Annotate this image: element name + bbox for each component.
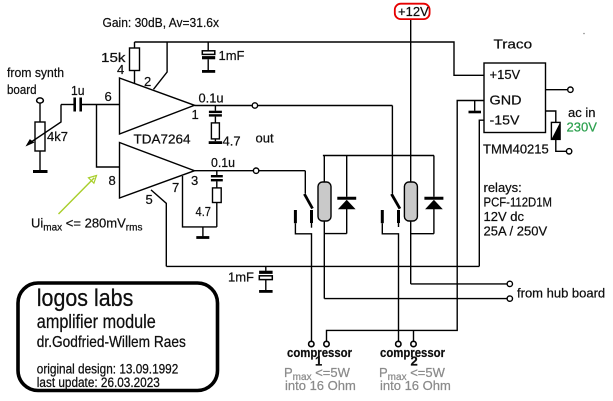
ground near Traco	[474, 101, 476, 111]
node ac terminal 2	[566, 149, 571, 154]
svg-text:4k7: 4k7	[47, 129, 68, 144]
svg-text:relays:: relays:	[484, 180, 522, 195]
wire to pin 8	[97, 105, 120, 168]
svg-text:4: 4	[117, 62, 124, 77]
svg-text:into 16 Ohm: into 16 Ohm	[380, 378, 451, 393]
node ac terminal 1	[568, 87, 573, 92]
svg-text:out: out	[256, 131, 274, 146]
svg-text:Gain: 30dB, Av=31.6x: Gain: 30dB, Av=31.6x	[103, 15, 220, 30]
relay2 contact NO	[381, 210, 384, 223]
svg-text:1mF: 1mF	[228, 270, 254, 285]
resistor R 4.7 top	[211, 123, 219, 139]
diode D2	[433, 156, 435, 197]
wire	[39, 103, 41, 122]
relay1 contact NO	[294, 210, 297, 223]
node stray dot	[583, 33, 585, 35]
svg-text:3: 3	[191, 173, 198, 188]
svg-text:0.1u: 0.1u	[199, 91, 224, 106]
node compressor2 terminal a	[396, 341, 401, 346]
svg-text:5: 5	[146, 192, 153, 207]
svg-text:7: 7	[172, 180, 179, 195]
wire relay1 armature	[304, 171, 306, 194]
svg-text:12V dc: 12V dc	[484, 209, 525, 224]
wire -15V	[479, 120, 484, 266]
svg-text:last update: 26.03.2023: last update: 26.03.2023	[37, 375, 160, 390]
wire relay2 armature	[391, 106, 393, 194]
title box logos labs	[18, 283, 218, 391]
ground	[202, 227, 204, 237]
svg-text:1mF: 1mF	[219, 48, 245, 63]
relay2 contact NC stub	[397, 210, 400, 223]
wire pin5 to -15V rail	[151, 190, 166, 267]
svg-text:4.7: 4.7	[223, 134, 241, 149]
node hub terminal 2	[507, 296, 512, 301]
wire	[82, 104, 120, 106]
capacitor C 0.1u bottom zobel	[216, 171, 218, 175]
node input terminal	[37, 98, 44, 103]
svg-text:from hub board: from hub board	[517, 286, 605, 301]
svg-text:8: 8	[109, 173, 116, 188]
wire ac line	[546, 111, 556, 122]
op-amp U1B (TDA7264 bottom)	[120, 143, 195, 199]
svg-text:dr.Godfried-Willem Raes: dr.Godfried-Willem Raes	[37, 334, 186, 351]
relay coil K2	[404, 182, 417, 221]
wire	[61, 104, 74, 106]
svg-text:-15V: -15V	[490, 113, 520, 128]
resistor R 4.7 bottom	[213, 188, 222, 203]
wire coil1-diode1	[324, 233, 346, 235]
svg-text:+12V: +12V	[398, 4, 429, 19]
svg-text:2: 2	[144, 74, 151, 89]
svg-text:Uimax <= 280mVrms: Uimax <= 280mVrms	[31, 216, 142, 234]
capacitor C 0.1u top zobel	[214, 106, 216, 111]
capacitor C 1mF top	[207, 42, 209, 51]
wire +12V drop	[410, 19, 412, 182]
fuse F1	[551, 122, 560, 139]
node compressor1 terminal a	[309, 341, 314, 346]
relay coil K1	[323, 156, 325, 183]
svg-text:logos labs: logos labs	[37, 285, 134, 312]
wire hub2	[324, 298, 507, 300]
svg-text:ac in: ac in	[568, 105, 595, 120]
svg-text:1: 1	[192, 107, 199, 122]
op-amp U1A (TDA7264 top)	[120, 78, 195, 134]
svg-text:into 16 Ohm: into 16 Ohm	[285, 378, 356, 393]
svg-text:6: 6	[105, 89, 112, 104]
svg-text:230V: 230V	[567, 120, 598, 135]
wire hub1	[411, 283, 507, 285]
wire pin7 loop	[183, 176, 217, 227]
resistor R 15k	[134, 42, 136, 48]
node hub terminal 1	[507, 281, 512, 286]
ground	[259, 290, 273, 293]
wire pin2 feedback	[154, 42, 168, 89]
svg-text:25A / 250V: 25A / 250V	[484, 224, 548, 239]
capacitor C 1u	[73, 98, 76, 112]
svg-text:amplifier module: amplifier module	[37, 312, 156, 333]
annotation arrow	[59, 178, 95, 214]
title text block	[37, 285, 186, 390]
svg-text:Traco: Traco	[494, 37, 533, 52]
power supply U2 Traco box	[484, 63, 546, 133]
ground	[209, 141, 222, 144]
node compressor2 terminal b	[411, 341, 416, 346]
wire out1	[195, 105, 393, 107]
potentiometer R 4k7	[35, 122, 45, 151]
wire +15V out terminal	[546, 89, 568, 91]
svg-text:PCF-112D1M: PCF-112D1M	[484, 195, 553, 210]
svg-text:+15V: +15V	[490, 67, 521, 82]
wire -15V rail	[166, 265, 479, 267]
svg-text:TMM40215: TMM40215	[483, 142, 549, 157]
svg-text:0.1u: 0.1u	[211, 155, 235, 170]
svg-text:1u: 1u	[71, 83, 85, 98]
wire	[556, 139, 567, 151]
wire GND run	[327, 101, 485, 342]
svg-text:TDA7264: TDA7264	[134, 132, 191, 147]
capacitor C 1mF bottom	[265, 266, 267, 271]
wire out2	[195, 170, 306, 172]
wire speaker2 return	[413, 330, 415, 341]
supply label +12V box	[395, 4, 430, 19]
svg-text:4.7: 4.7	[196, 204, 212, 219]
svg-text:from synth: from synth	[7, 65, 64, 80]
svg-text:GND: GND	[490, 93, 522, 108]
node out2 connector	[253, 168, 258, 173]
relay1 contact NC stub	[310, 210, 313, 223]
ground	[39, 151, 41, 171]
wire coil2-diode2	[411, 233, 434, 235]
wire +15V top rail	[135, 42, 485, 75]
node out1 connector	[252, 103, 257, 108]
diode D1	[346, 156, 348, 197]
wire relay +12V rail	[323, 155, 434, 157]
node compressor1 terminal b	[324, 341, 329, 346]
wire wiper	[28, 105, 62, 145]
svg-text:board: board	[7, 82, 37, 97]
